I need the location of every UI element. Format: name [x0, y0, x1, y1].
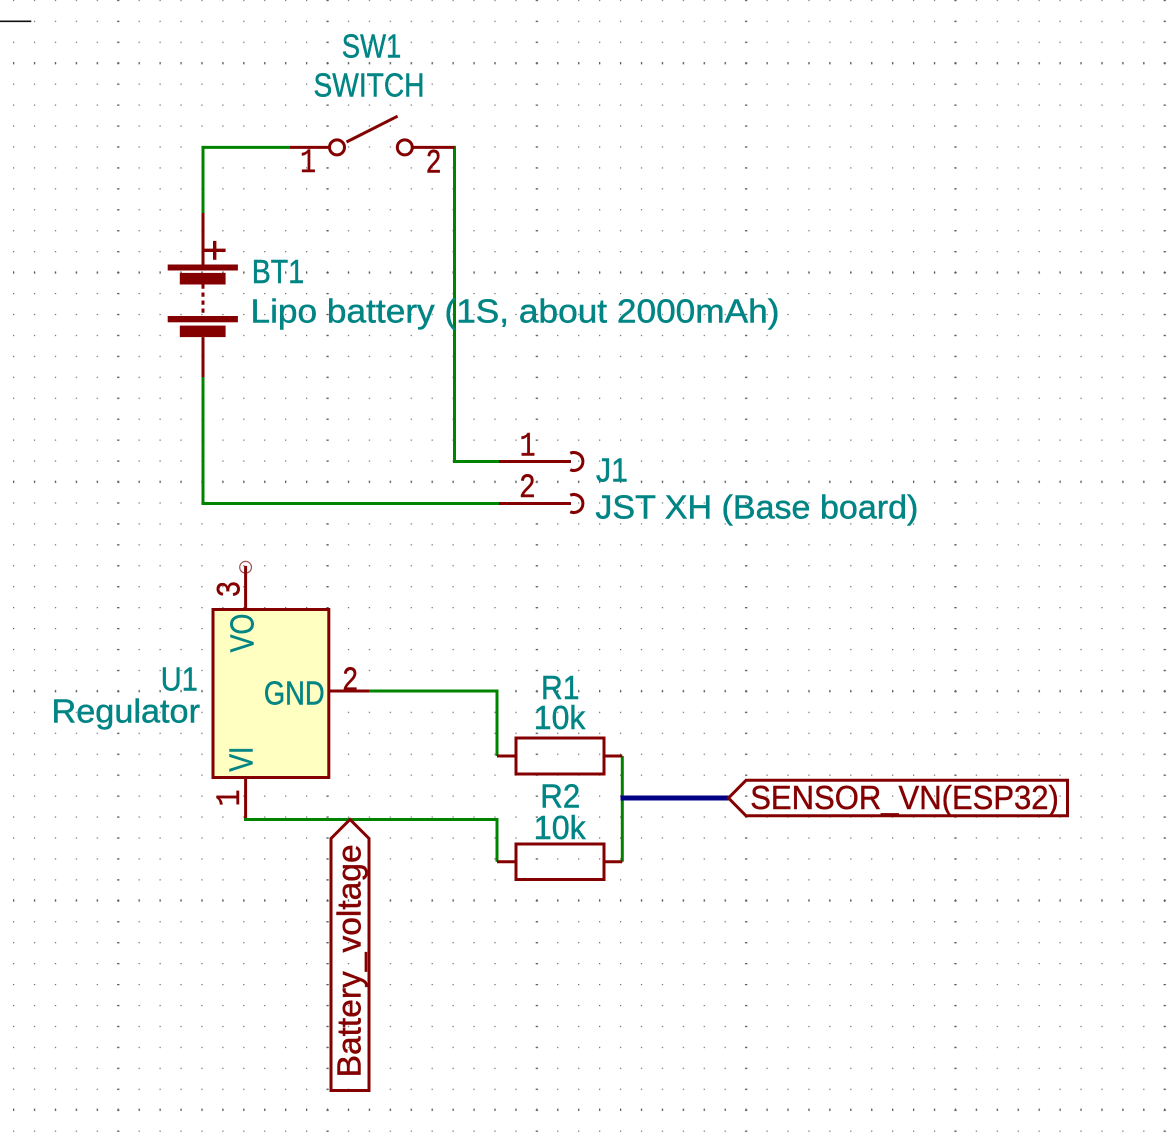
switch SW1: [290, 116, 454, 155]
regulator U1 pin name VO: [223, 614, 260, 653]
switch SW1 pin 2 number: [426, 146, 442, 184]
svg-text:GND: GND: [264, 674, 325, 711]
wire: [453, 460, 499, 463]
wire: [453, 146, 456, 462]
regulator U1 pin 2 number: [342, 663, 358, 701]
svg-text:2: 2: [519, 470, 536, 508]
resistor R2 reference label R2: [540, 778, 580, 815]
switch SW1 value label SWITCH: [314, 66, 425, 103]
svg-text:Regulator: Regulator: [52, 693, 201, 730]
svg-text:10k: 10k: [534, 809, 586, 846]
battery BT1: [168, 213, 238, 377]
resistor R1 value label 10k: [534, 699, 586, 736]
svg-text:BT1: BT1: [252, 253, 304, 290]
svg-text:10k: 10k: [534, 699, 586, 736]
hierarchical label SENSOR_VN(ESP32): [729, 779, 1068, 816]
battery BT1 value label: [251, 293, 780, 330]
svg-text:J1: J1: [596, 451, 628, 488]
wire: [202, 377, 205, 504]
connector J1 pin 2 number: [519, 470, 536, 508]
svg-text:2: 2: [342, 663, 358, 701]
regulator U1 pin name VI: [222, 747, 259, 772]
regulator U1: [213, 610, 329, 778]
regulator U1 pin 1 number: [212, 790, 250, 807]
resistor R2: [497, 844, 622, 880]
regulator U1 pin 3 number: [212, 581, 250, 598]
regulator U1 pin name GND: [264, 674, 325, 711]
svg-text:3: 3: [212, 581, 250, 598]
connector J1 value label: [595, 489, 918, 526]
wire: [621, 756, 624, 862]
svg-text:1: 1: [300, 145, 316, 183]
wire: [203, 146, 290, 149]
wire: [244, 818, 497, 821]
svg-text:VO: VO: [223, 614, 260, 653]
svg-text:JST XH (Base board): JST XH (Base board): [595, 489, 918, 526]
switch SW1 pin 1 number: [300, 145, 316, 183]
connector J1: [499, 453, 583, 513]
regulator U1 value label Regulator: [52, 693, 201, 730]
wire: [202, 502, 500, 505]
hierarchical label Battery_voltage: [331, 820, 370, 1091]
wire: [496, 818, 499, 862]
wire: [496, 690, 499, 757]
regulator U1 pin 1 (VI): [244, 778, 247, 819]
wire: [202, 146, 205, 213]
regulator U1 reference label U1: [161, 661, 198, 698]
resistor R1 reference label R1: [541, 669, 580, 706]
svg-text:SW1: SW1: [342, 27, 402, 64]
svg-text:1: 1: [212, 790, 250, 807]
regulator U1 pin 2 (GND): [329, 690, 369, 693]
svg-text:SENSOR_VN(ESP32): SENSOR_VN(ESP32): [750, 779, 1059, 816]
svg-text:Lipo battery (1S, about 2000mA: Lipo battery (1S, about 2000mAh): [251, 293, 780, 330]
wire: [369, 690, 497, 693]
connector J1 reference label J1: [596, 451, 628, 488]
svg-text:Battery_voltage: Battery_voltage: [331, 844, 368, 1077]
wire (bus) to SENSOR_VN: [621, 796, 729, 801]
svg-text:VI: VI: [222, 747, 259, 772]
svg-text:2: 2: [426, 146, 442, 184]
resistor R1: [497, 738, 622, 774]
svg-text:SWITCH: SWITCH: [314, 66, 425, 103]
switch SW1 reference label SW1: [342, 27, 402, 64]
battery BT1 reference label BT1: [252, 253, 304, 290]
resistor R2 value label 10k: [534, 809, 586, 846]
connector J1 pin 1 number: [520, 428, 536, 466]
regulator U1 pin 3 (VO): [240, 561, 252, 609]
svg-text:1: 1: [520, 428, 536, 466]
